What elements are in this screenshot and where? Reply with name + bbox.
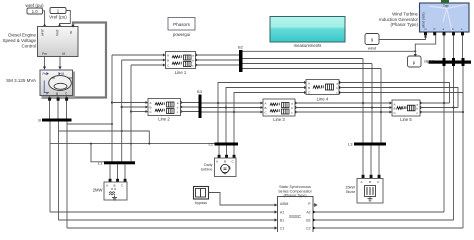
wire L3 drop B to load <box>370 146 372 179</box>
label Wind Turbine Induction Generator (Phasor Type) <box>379 12 418 28</box>
wire L2 drop A to machine load <box>218 146 220 159</box>
wire bus B3 phase b to Line 3 input B <box>202 106 264 109</box>
svg-text:(Phasor Type): (Phasor Type) <box>391 22 419 27</box>
three-phase PI section Line 3 <box>263 99 295 116</box>
svg-text:Line 1: Line 1 <box>175 70 187 75</box>
wire Line 1 output c to bus B2 <box>196 64 240 66</box>
turbine port pad a <box>443 32 446 35</box>
svg-text:L2: L2 <box>209 142 214 147</box>
wire SM phase C to bus B1 <box>66 96 68 119</box>
wire bus B2 phase b to column x372 <box>243 63 373 65</box>
wire Pm control to SM <box>43 57 46 70</box>
junction node column x372 <box>371 106 373 108</box>
svg-text:powergui: powergui <box>173 32 190 37</box>
wire bus B2 phase c to column x381 <box>243 68 382 70</box>
bus tick phase a <box>443 58 446 66</box>
svg-text:B1: B1 <box>280 219 284 223</box>
vertical feeder phase A x112 <box>111 55 113 161</box>
wire branch column x218 down to bus L2 <box>217 103 219 143</box>
svg-text:Induction Generator: Induction Generator <box>379 17 418 22</box>
svg-text:B2: B2 <box>238 45 244 50</box>
svg-text:B: B <box>167 59 169 63</box>
powergui block Phasors <box>168 18 195 38</box>
wire branch column x218 up to Line 4 input A <box>218 81 307 103</box>
wire m feedback SM to control (thick grey) <box>71 23 106 98</box>
wire turbine m output to p block <box>414 35 436 56</box>
svg-text:Line 2: Line 2 <box>158 117 170 122</box>
svg-text:wref: wref <box>41 30 45 36</box>
svg-text:C2: C2 <box>306 227 310 231</box>
wire B1 phase B down-left to SSSC B1 with branch row and jog <box>59 122 151 221</box>
constant block wind speed 9 <box>365 34 379 51</box>
wire Line 2 output b to bus B3 <box>181 106 199 108</box>
wire L3 drop C to load <box>378 146 380 179</box>
svg-text:B: B <box>114 184 116 188</box>
svg-text:A2: A2 <box>306 211 310 215</box>
wire Line 4 output b over to corner x458 down <box>340 88 458 108</box>
svg-text:Line 3: Line 3 <box>273 117 285 122</box>
svg-text:SSSC: SSSC <box>289 214 301 219</box>
wire Line 3 output a to Line 5 input A <box>295 102 392 105</box>
wire bus B3 phase c to Line 3 input C <box>202 111 264 114</box>
port arrows Line 3 outputs <box>295 101 298 113</box>
port arrows Line 5 outputs <box>420 101 423 113</box>
bus B575 under wind turbine <box>429 61 472 64</box>
wire Line 1 output b to bus B2 <box>196 59 240 61</box>
wire branch from row to bus L1 via x91 <box>90 143 104 162</box>
wire Line 4 output c over to corner x463 down <box>340 93 463 113</box>
wire L1 bus drop C to load <box>124 164 126 182</box>
turbine port pad c <box>461 32 464 35</box>
port arrows Line 2 outputs <box>181 101 184 113</box>
svg-text:Pm: Pm <box>42 52 47 56</box>
wire Line 5 output a to main column x444 <box>420 102 450 104</box>
wire Vf control to SM <box>58 57 61 70</box>
wire Line 3 output b to Line 5 input B <box>295 106 392 109</box>
wire SM phase A to bus B1 <box>49 96 51 119</box>
svg-text:bypass: bypass <box>195 201 207 205</box>
svg-text:m: m <box>69 31 73 34</box>
wire B1 phase C down-left to SSSC C1 with branch row to feeder <box>67 122 113 229</box>
svg-text:Speed & Voltage: Speed & Voltage <box>2 38 36 43</box>
wire B1 phase A down-left to SSSC A1 with branch row to bus L2 <box>50 122 215 213</box>
svg-text:wref (pu): wref (pu) <box>25 3 44 8</box>
junction node phase c at x234 <box>233 111 235 113</box>
wire SM phase B to bus B1 <box>57 96 59 119</box>
label Diesel Engine Speed & Voltage Control <box>2 33 36 49</box>
svg-text:Diesel Engine: Diesel Engine <box>8 33 36 38</box>
wire turbine phase a to bus <box>443 35 445 61</box>
svg-text:(Phasor Type): (Phasor Type) <box>283 193 306 197</box>
wire Line 5 output b to main column x453.5 <box>420 107 458 109</box>
svg-text:Daily: Daily <box>204 163 213 167</box>
synchronous machine SM 3.125 MVA <box>40 70 75 99</box>
junction node at x463 y112 <box>462 111 464 113</box>
wire bus B2 measurement tap to p column <box>243 50 417 52</box>
junction node column x363 <box>362 102 364 104</box>
svg-text:L1: L1 <box>98 160 103 165</box>
wind turbine induction generator block <box>420 3 470 32</box>
port arrows Line 4 outputs <box>339 81 342 94</box>
svg-text:A: A <box>167 54 169 58</box>
turbine port pad b <box>452 32 455 35</box>
bus L2 <box>209 142 238 147</box>
svg-text:Vref: Vref <box>56 30 60 36</box>
label Static Synchronous Series Compensator (Phasor Type) <box>278 185 312 197</box>
svg-text:A: A <box>265 102 267 106</box>
wire branch column x234 up to Line 4 input C <box>234 91 307 112</box>
wire long bottom run to SSSC input C1 <box>67 226 277 229</box>
svg-text:A/BM: A/BM <box>280 202 288 206</box>
svg-text:A: A <box>216 160 218 164</box>
wire long bottom run to SSSC input B1 <box>59 218 278 221</box>
svg-text:Control: Control <box>21 44 36 49</box>
svg-text:Vf: Vf <box>62 52 65 56</box>
three-phase PI section Line 4 <box>306 80 339 95</box>
measurements block <box>270 17 345 49</box>
junction node at x453.5 y107.5 <box>452 106 454 108</box>
wire Line 4 output a over to corner x449.5 down <box>340 83 450 104</box>
svg-text:A1: A1 <box>280 211 284 215</box>
wire Line 2 output c to bus B3 <box>181 111 199 113</box>
manual switch block bypass <box>194 187 209 205</box>
svg-text:L3: L3 <box>348 142 353 147</box>
wire feeder to Line 1 input C <box>131 64 166 67</box>
label Daily turbine <box>201 163 213 172</box>
bus tick phase c <box>462 58 465 66</box>
svg-text:SM 3.125 MVA: SM 3.125 MVA <box>6 78 36 83</box>
wire L3 drop A to load <box>362 146 364 179</box>
wire branch column x234 down to bus L2 <box>233 112 235 143</box>
svg-text:P: P <box>434 27 436 31</box>
svg-text:slip'M': slip'M' <box>424 60 434 64</box>
svg-text:turbine: turbine <box>201 168 213 172</box>
wire Vref constant to control input <box>58 11 70 27</box>
junction node at x444 y103 <box>443 102 445 104</box>
bus tick phase b <box>452 58 455 66</box>
svg-text:Line 5: Line 5 <box>400 117 412 122</box>
wire turbine phase c to bus <box>462 35 464 61</box>
main column phase c x463 turbine bus to SSSC C2 <box>462 64 464 229</box>
three-phase load 15kW <box>357 179 383 204</box>
diesel engine speed and voltage control block U1 <box>38 27 79 57</box>
turbine port pad m <box>424 32 427 35</box>
wire column x381 from B2 down to bus L3 <box>380 69 382 143</box>
svg-text:B: B <box>369 180 371 184</box>
svg-text:B2: B2 <box>306 219 310 223</box>
wire SSSC output B2 run <box>313 219 454 221</box>
wire Line 2 input B from feeder x121.7 <box>121 106 149 109</box>
machine load block Daily turbine <box>215 158 237 177</box>
svg-text:15kW: 15kW <box>345 186 355 190</box>
svg-text:wind (m/s): wind (m/s) <box>422 12 426 28</box>
svg-text:A: A <box>150 101 152 105</box>
bus L1 <box>98 160 135 165</box>
bus B2 <box>238 45 244 73</box>
main column phase a x444 turbine bus to SSSC A2 <box>443 64 445 213</box>
svg-text:A: A <box>308 82 310 86</box>
wire feeder to Line 1 input B <box>122 59 166 62</box>
wire bypass block to SSSC bypass input <box>209 193 278 207</box>
svg-text:A: A <box>361 180 363 184</box>
svg-text:A: A <box>106 184 108 188</box>
wire Line 5 output c to main column x463 <box>420 111 463 113</box>
terminator block p for slip <box>408 56 435 67</box>
port arrows SSSC outputs <box>313 210 316 229</box>
wire branch column x226 down to bus L2 <box>225 108 227 143</box>
bus L3 <box>348 142 386 147</box>
wire wref constant to control input <box>43 11 47 27</box>
wire L1 bus drop B to load <box>117 164 119 182</box>
svg-text:B: B <box>224 160 226 164</box>
svg-text:B: B <box>150 106 152 110</box>
wire Line 3 output c to Line 5 input C <box>295 111 392 114</box>
svg-text:Vref (pu): Vref (pu) <box>49 15 67 20</box>
svg-text:B: B <box>265 106 267 110</box>
turbine port pad P <box>433 32 436 35</box>
wire SSSC output C2 run <box>313 227 463 229</box>
svg-text:B: B <box>38 118 41 123</box>
wire L1 bus drop A to load <box>109 164 111 182</box>
bus B3 <box>197 89 203 118</box>
svg-text:B: B <box>308 86 310 90</box>
svg-text:measurements: measurements <box>294 43 322 48</box>
wire L2 drop B to machine load <box>226 146 228 159</box>
svg-text:Phasors: Phasors <box>173 22 191 27</box>
svg-text:Line 4: Line 4 <box>317 96 329 101</box>
constant block wref (pu) <box>25 3 44 14</box>
wire Line 2 input C from feeder x131 <box>130 110 148 113</box>
three-phase load 2MW <box>104 182 127 200</box>
wire branch column x226 up to Line 4 input B <box>226 86 307 108</box>
SSSC static synchronous series compensator block <box>278 197 318 235</box>
vertical feeder phase B x121.7 <box>121 60 123 161</box>
svg-text:B3: B3 <box>197 89 203 94</box>
wire Line 1 output a to bus B2 <box>196 54 240 56</box>
junction node phase b at x226 <box>225 106 227 108</box>
wire Line 2 output a to bus B3 <box>181 102 199 104</box>
wire Line 2 input A from feeder x112 <box>111 101 148 104</box>
main column phase b x453.5 turbine bus to SSSC B2 <box>453 64 455 221</box>
svg-text:Trip: Trip <box>443 4 449 8</box>
three-phase PI section Line 2 <box>148 99 181 116</box>
label 15kW 5kvar <box>345 186 355 195</box>
svg-text:wind: wind <box>368 46 376 51</box>
wire long bottom run to SSSC input A1 <box>50 210 277 213</box>
svg-text:C1: C1 <box>280 227 284 231</box>
three-phase PI section Line 1 <box>166 52 196 69</box>
wire turbine phase b to bus <box>453 35 455 61</box>
bus B1 <box>38 118 71 123</box>
svg-text:5kvar: 5kvar <box>346 190 356 194</box>
wire feeder to Line 1 input A <box>112 54 166 57</box>
wire column x363 from B2 down to bus L3 <box>362 59 364 143</box>
port arrows Line 1 outputs <box>196 53 199 66</box>
svg-text:1.0: 1.0 <box>32 9 39 14</box>
three-phase PI section Line 5 <box>392 100 420 116</box>
svg-text:B: B <box>56 92 58 96</box>
goto tag above turbine (cut) <box>441 0 449 3</box>
wire column x372 from B2 down to bus L3 <box>371 64 373 143</box>
wire wind constant to turbine wind input <box>379 35 427 40</box>
vertical feeder phase C x131 <box>130 65 132 161</box>
junction node phase a at x218 <box>217 102 219 104</box>
wire bus B3 phase a to Line 3 input A <box>202 102 264 105</box>
svg-text:2MW: 2MW <box>93 187 103 192</box>
wire L2 drop C to machine load <box>233 146 235 159</box>
junction node column x381 <box>380 111 382 113</box>
svg-text:Wind Turbine: Wind Turbine <box>392 12 418 17</box>
constant block Vref (pu) <box>49 8 67 20</box>
wire bus B2 phase a to column x363 <box>243 58 364 60</box>
wire SSSC output A2 run <box>313 211 444 213</box>
